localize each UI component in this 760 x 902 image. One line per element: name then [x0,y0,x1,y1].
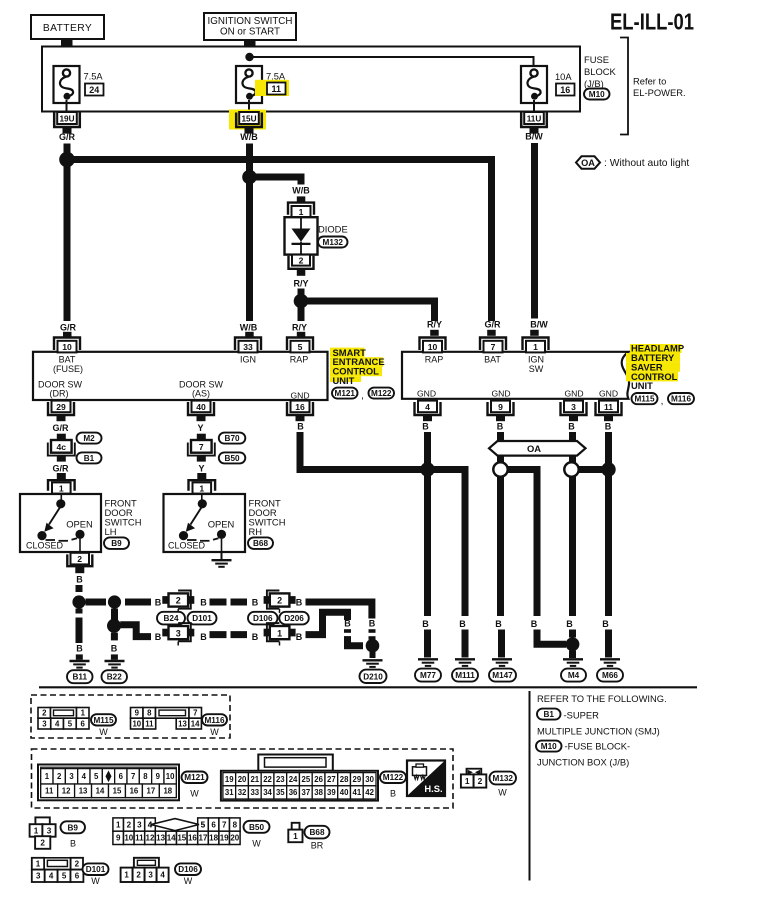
svg-text:B: B [531,619,538,629]
svg-text:10: 10 [166,772,175,781]
junction dot R/Y [294,294,309,309]
svg-text:27: 27 [327,775,336,784]
ground id M4 [561,669,586,682]
note Refer to EL-POWER [633,76,686,99]
svg-text:6: 6 [75,872,80,881]
wire dot B to conn B24-2 [125,599,151,606]
svg-text:12: 12 [146,834,155,843]
label W/B under 15U [240,132,258,142]
label B under pin16 [297,422,304,432]
svg-text:M115: M115 [93,716,113,725]
wire R/Y diode to RAP [298,289,305,322]
fuse 10A #16 [521,66,547,103]
wire W/B branch to diode [250,177,302,185]
svg-text:M122: M122 [383,773,404,782]
label B before conn2b [252,597,259,607]
highlight headlamp text [626,344,682,381]
separator line [39,686,697,688]
svg-text:OPEN: OPEN [208,518,235,529]
wire B pin9 column [497,432,504,616]
svg-text:Refer to: Refer to [633,76,666,87]
svg-text:W: W [210,727,219,737]
chain connector 2 B24/D101 [162,591,194,613]
label B above ground M4col [566,619,573,629]
ground door switch RH [212,552,232,567]
legend OA hexagon [576,156,689,169]
svg-text:B: B [296,632,303,642]
connector id D106 [248,612,278,625]
connector face D101 [32,858,84,882]
svg-text:15U: 15U [241,114,256,123]
svg-text:IGNITION SWITCH: IGNITION SWITCH [208,16,293,27]
svg-text:M132: M132 [493,774,514,783]
svg-text:GND: GND [417,388,436,398]
chain connector 1 D106/D206 [264,623,296,645]
label FRONT DOOR SWITCH RH [249,497,286,537]
wire branch circle3 to pin11 dot [576,466,609,473]
label RAP [290,355,309,365]
svg-text:OPEN: OPEN [66,518,93,529]
label CLOSED RH [168,541,206,551]
svg-text:RH: RH [249,526,263,537]
svg-text:4: 4 [160,871,165,880]
label DOOR SW (DR) [38,379,83,398]
svg-text:11: 11 [45,787,54,796]
connector 15U [236,112,262,134]
svg-text:10: 10 [124,834,133,843]
svg-text:M2: M2 [83,434,95,443]
svg-text:1: 1 [277,628,282,638]
svg-text:LH: LH [105,526,117,537]
svg-text:13: 13 [156,834,165,843]
wire branch circle9 down [505,470,537,617]
svg-text:B9: B9 [111,539,122,548]
fuse 7.5A #24 [54,66,80,103]
svg-text:M132: M132 [323,238,344,247]
chain connector 3 B24/D101 [162,623,194,645]
svg-text:4: 4 [49,872,54,881]
label BAT (FUSE) [53,355,83,374]
label B above D210 [369,619,376,629]
svg-text:B: B [497,422,504,432]
svg-text:,: , [361,391,364,402]
wire dot C to B22 [111,633,118,641]
pin 4 GND [415,401,441,422]
svg-text:30: 30 [365,775,374,784]
svg-text:UNIT: UNIT [631,380,653,391]
junction dot B [108,595,121,608]
label FUSE BLOCK (J/B) [584,54,617,89]
diagram title EL-ILL-01 [610,9,694,35]
wire D210 dot to ground [370,652,376,658]
wire ignition to fuse block [244,39,256,70]
svg-text:2: 2 [75,860,80,869]
svg-text:4: 4 [148,820,153,829]
note REFER TO THE FOLLOWING [537,693,667,704]
svg-text:11: 11 [604,402,613,412]
SMJ connector 4c [48,434,75,462]
ignition switch source box [204,13,296,40]
svg-text:B: B [155,632,162,642]
label B above B11 [76,644,83,654]
wire conn2a to conn2b [210,599,248,606]
connector face B9 [30,817,56,848]
connector id M10 [584,89,610,100]
open splice circle pin3 w/o auto light [564,462,578,476]
svg-text:6: 6 [80,719,85,728]
label W/B above pin33 [240,323,258,333]
svg-text:42: 42 [365,788,374,797]
wire GND16 column and elbow [300,432,465,616]
highlight fuse 11 [255,80,289,96]
svg-text:2: 2 [42,709,47,718]
svg-text:Y: Y [198,464,204,474]
svg-text:2: 2 [299,256,304,266]
svg-text:BATTERY: BATTERY [43,23,92,34]
svg-text:OA: OA [527,443,541,454]
highlight 15U [229,110,266,130]
svg-text:(AS): (AS) [192,388,210,398]
svg-text:REFER TO THE FOLLOWING.: REFER TO THE FOLLOWING. [537,693,667,704]
svg-text:11U: 11U [527,114,542,123]
svg-text:D206: D206 [284,614,304,623]
svg-text:5: 5 [298,342,303,352]
svg-text:OA: OA [581,158,595,168]
label R/Y above pin10 headlamp [427,320,442,330]
connector id B68 [248,537,273,549]
svg-text:B: B [155,597,162,607]
svg-text:B22: B22 [107,673,122,682]
stub pin5 [297,332,306,338]
svg-text:1: 1 [199,483,204,493]
connector 1 door switch LH [48,473,75,494]
label GND pin3 [564,388,583,398]
svg-text:16: 16 [130,787,139,796]
svg-text:17: 17 [147,787,156,796]
pin 29 DOOR SW DR [48,401,74,422]
svg-text:B68: B68 [309,828,324,837]
svg-text:B24: B24 [163,614,178,623]
connector id B9 [104,537,129,549]
svg-text:H.S.: H.S. [424,783,442,794]
wire to ground M77 [424,630,431,658]
svg-text:W: W [190,788,199,798]
connector face M121 [38,765,179,801]
note JUNCTION BOX (J/B) [537,757,629,768]
ground id M66 [597,669,623,682]
label G/R above pin10 [60,323,77,333]
wire to ground M66 [605,630,612,658]
label G/R above pin7 [484,320,501,330]
svg-text:B: B [568,422,575,432]
svg-text:5: 5 [62,872,67,881]
label GND pin4 [417,388,436,398]
svg-text:16: 16 [295,402,305,412]
wire to ground M147 [498,630,505,658]
wire jog dashes [344,629,351,638]
connector id M2 [77,433,102,444]
svg-text:18: 18 [209,834,218,843]
stub pin10 [63,332,72,338]
svg-text:W: W [99,727,108,737]
connector id M115 face [91,714,116,737]
svg-text:9: 9 [498,402,503,412]
svg-text:32: 32 [238,788,247,797]
wire B pin11 column [605,432,612,616]
stub pin7 [487,330,496,336]
svg-text:19: 19 [225,775,234,784]
wire R/Y branch to headlamp RAP [301,301,435,321]
svg-text:1: 1 [293,831,298,841]
svg-text:-SUPER: -SUPER [564,709,600,720]
svg-text:23: 23 [276,775,285,784]
headlamp battery saver control unit box [402,352,629,399]
wire B dashes to dot A [76,585,83,597]
ground M77 [418,659,438,666]
svg-text:4: 4 [82,772,87,781]
svg-text:8: 8 [147,709,152,718]
svg-text:36: 36 [289,788,298,797]
note -SUPER [564,709,600,720]
label B above ground M111col [459,619,466,629]
svg-text:B1: B1 [544,710,555,719]
dashed box connectors M121 M122 [32,749,454,808]
label FRONT DOOR SWITCH LH [105,497,142,537]
svg-text:9: 9 [156,772,161,781]
svg-text:2: 2 [127,820,132,829]
label B under pin11 [605,422,612,432]
svg-text:1: 1 [34,826,39,835]
note id M10 [536,741,562,752]
connector id M132 at diode [318,237,348,248]
pin 40 DOOR SW AS [188,401,214,422]
stub B11 [76,654,83,659]
svg-text:1: 1 [124,871,129,880]
svg-text:13: 13 [178,719,187,728]
label OPEN LH [66,518,93,529]
svg-text:B: B [111,644,118,654]
pin 10 BAT(FUSE) [54,338,80,353]
highlight smart entrance text [330,348,383,382]
svg-text:3: 3 [176,628,181,638]
SMJ connector 7 [188,434,215,462]
svg-text:M121: M121 [335,389,356,398]
svg-text:B: B [605,422,612,432]
svg-text:B: B [369,619,376,629]
svg-text:M111: M111 [455,671,475,680]
svg-text:35: 35 [276,788,285,797]
connector face M122 [221,755,378,801]
ground D210 [363,660,383,667]
svg-text:B: B [76,644,83,654]
svg-text:33: 33 [243,342,253,352]
label B after conn2b [296,597,303,607]
connector face M115 [38,708,89,730]
smart entrance control unit box [33,352,328,400]
svg-text:8: 8 [233,820,238,829]
pin 7 BAT headlamp [480,338,506,353]
pin 11 GND [596,401,622,422]
svg-text:D106: D106 [253,614,273,623]
connector id B70 [219,433,246,444]
svg-text:2: 2 [40,838,45,847]
svg-text:B: B [200,597,207,607]
label B above ground M4branch [531,619,538,629]
svg-text:37: 37 [301,788,310,797]
svg-text:M77: M77 [420,671,436,680]
svg-text:31: 31 [225,788,234,797]
svg-text:14: 14 [96,787,105,796]
junction dot M4 [566,637,580,651]
svg-text:15: 15 [113,787,122,796]
svg-text:(J/B): (J/B) [584,78,604,89]
label B before conn3 [155,632,162,642]
svg-text:7: 7 [131,772,135,781]
svg-text:7: 7 [491,342,496,352]
svg-text:: Without auto light: : Without auto light [604,158,689,169]
battery B+ source box [31,15,104,39]
svg-text:BR: BR [311,840,324,850]
pin 16 GND [287,401,313,422]
wire to ground M111 [462,630,469,658]
switch LH internals [37,494,84,552]
svg-text:SW: SW [529,364,544,374]
wire fuse1 to 19U [66,100,68,112]
svg-text:40: 40 [196,402,206,412]
connector 1 door switch RH [189,473,216,494]
connector id B68 face [305,826,330,851]
svg-text:15: 15 [177,834,186,843]
svg-text:1: 1 [465,776,470,786]
svg-text:M66: M66 [602,671,618,680]
svg-text:EL-ILL-01: EL-ILL-01 [610,9,694,35]
ground M111 [455,659,475,666]
svg-text:3: 3 [42,719,47,728]
svg-text:38: 38 [314,788,323,797]
label GND pin9 [491,388,510,398]
svg-text:B: B [252,632,259,642]
svg-text:D106: D106 [178,865,198,874]
svg-text:18: 18 [163,787,172,796]
front door switch LH box [20,494,101,552]
svg-text:BAT: BAT [484,355,501,365]
label B above ground M147col [495,619,502,629]
wire B/W column [531,143,538,319]
label B before conn2a [155,597,162,607]
svg-text:D210: D210 [363,672,383,681]
svg-text:W/B: W/B [240,132,258,142]
fuse number box 16 [556,84,575,96]
svg-text:4: 4 [55,719,60,728]
svg-text:CLOSED: CLOSED [26,541,64,551]
front door switch RH box [164,494,246,552]
ground id M147 [489,669,516,682]
label DIODE [318,223,348,234]
label B/W under 11U [525,132,543,142]
svg-text:10A: 10A [555,72,572,82]
wire fuse2 to 15U [248,100,250,112]
svg-text:1: 1 [116,820,121,829]
wire fuse3 to 11U [533,100,535,112]
pin 9 GND [488,401,514,422]
svg-text:3: 3 [148,871,153,880]
connector face D106 [121,858,169,882]
fuse number box 11 [267,83,286,95]
label B under pin4 [422,422,429,432]
ground B11 [70,661,90,668]
svg-text:W/B: W/B [292,186,310,196]
svg-text:,: , [661,396,664,407]
svg-text:GND: GND [599,388,618,398]
svg-text:16: 16 [188,834,197,843]
H.S. harness symbol [407,761,445,797]
connector id M122 face [380,772,406,799]
label B after conn1b [296,632,303,642]
label B under switch LH [76,575,83,585]
svg-text:3: 3 [137,820,142,829]
svg-text:M115: M115 [634,395,654,404]
svg-text:5: 5 [68,719,73,728]
ground id B22 [102,670,128,683]
svg-text:8: 8 [143,772,148,781]
svg-text:5: 5 [201,820,206,829]
label B above ground M77col [422,619,429,629]
ground M66 [600,659,620,666]
ground B22 [105,661,125,668]
connector face B68 [288,823,302,842]
connector face M132 [461,769,486,788]
svg-text:12: 12 [62,787,71,796]
wire G/R battery column [64,144,71,322]
svg-text:B: B [344,619,351,629]
svg-text:GND: GND [491,388,510,398]
svg-text:JUNCTION BOX (J/B): JUNCTION BOX (J/B) [537,757,629,768]
svg-text:(FUSE): (FUSE) [53,364,83,374]
junction dot D210 [366,639,380,653]
label SMART ENTRANCE CONTROL UNIT [333,347,385,386]
label B above B22 [111,644,118,654]
svg-text:RAP: RAP [290,355,309,365]
hexagon OA option [489,441,586,456]
svg-text:24: 24 [289,775,298,784]
label RAP headlamp [425,355,444,365]
label OPEN RH [208,518,235,529]
svg-text:(DR): (DR) [50,388,69,398]
svg-text:M116: M116 [204,716,224,725]
wire battery to fuse block [61,39,73,70]
svg-text:3: 3 [69,772,74,781]
svg-text:B50: B50 [249,823,264,832]
svg-text:M147: M147 [492,671,513,680]
label 7.5A fuse1 [84,72,104,82]
svg-text:3: 3 [571,402,576,412]
stub B22 [111,654,118,659]
svg-text:25: 25 [301,775,310,784]
wire bus G/R horizontal [67,160,492,322]
svg-text:M116: M116 [671,395,691,404]
label 10A fuse3 [555,72,572,82]
svg-text:41: 41 [353,788,362,797]
svg-text:14: 14 [191,719,200,728]
svg-text:1: 1 [59,483,64,493]
svg-text:7.5A: 7.5A [84,72,104,82]
svg-text:RAP: RAP [425,355,444,365]
svg-text:M121: M121 [184,773,205,782]
svg-text:9: 9 [135,709,140,718]
wire B pin4 column [424,432,431,616]
wire dot A to B11 [76,609,83,644]
refer column divider [529,691,531,881]
